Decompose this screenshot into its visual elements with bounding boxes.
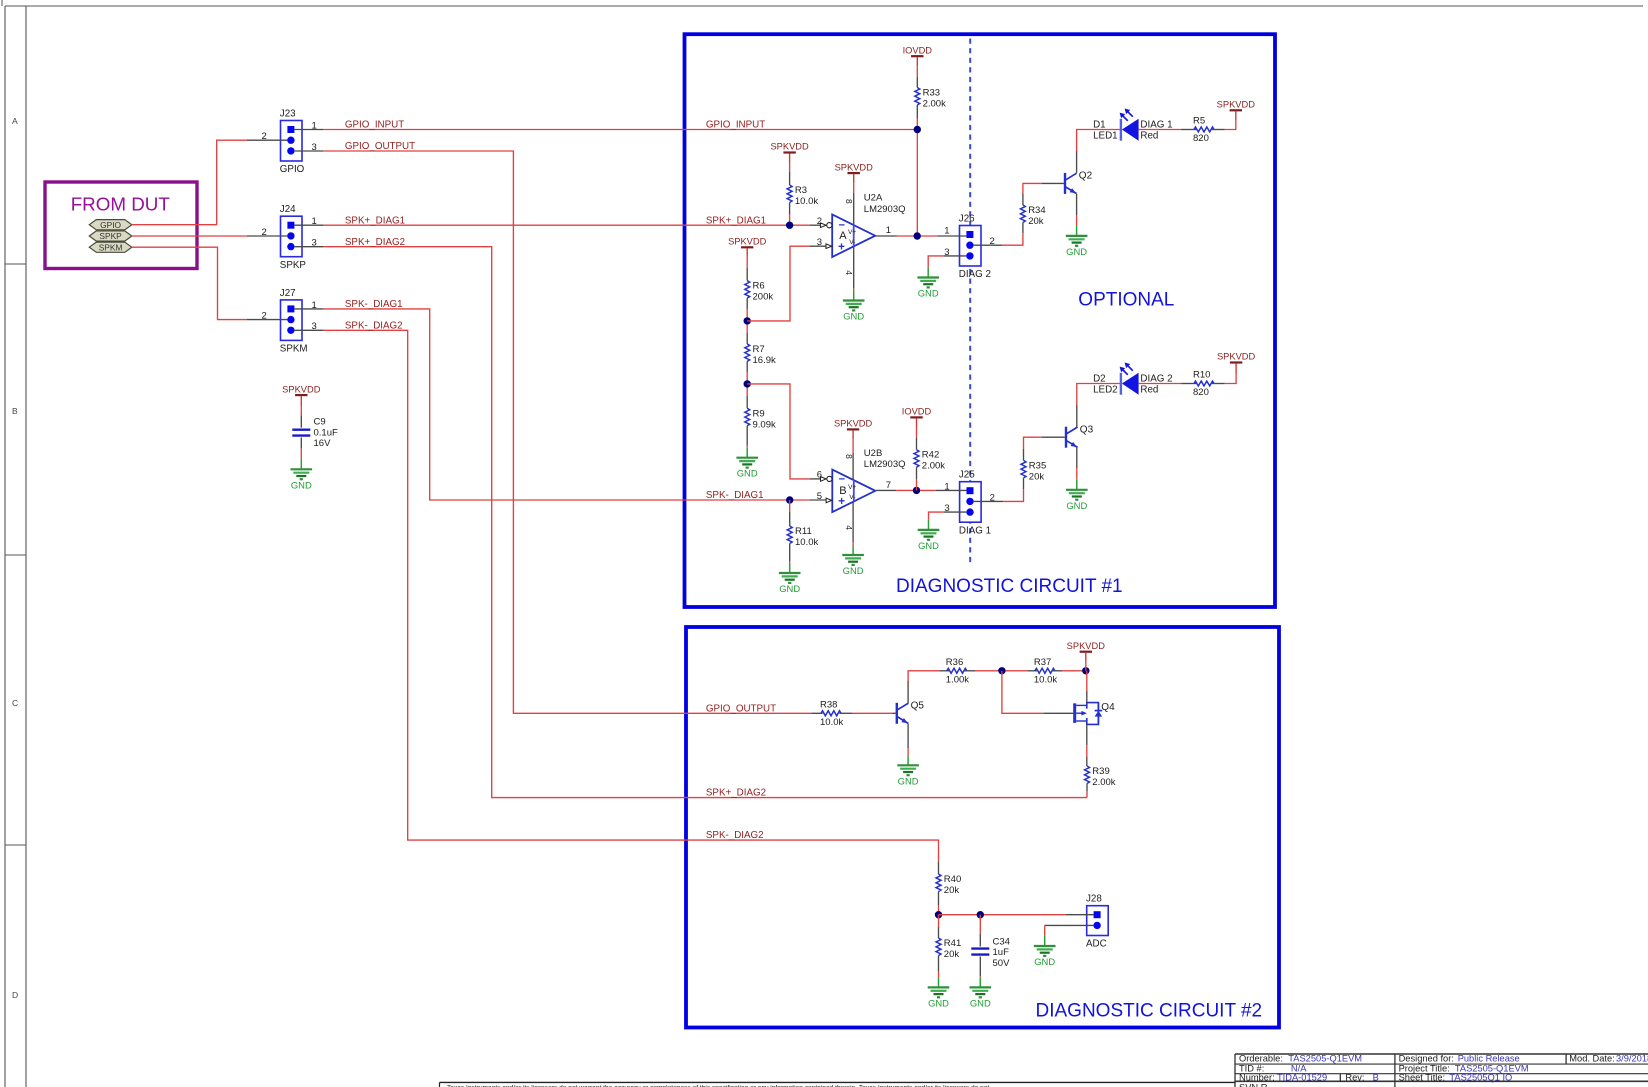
wire J26.1 lead [937,235,966,237]
svg-text:GND: GND [737,468,758,479]
svg-text:IOVDD: IOVDD [903,45,933,55]
svg-text:8: 8 [844,454,854,459]
svg-text:+: + [838,496,845,508]
transistor Q3 [1065,424,1094,447]
svg-text:R37: R37 [1034,657,1051,668]
wire J24.3 lead [295,246,323,248]
svg-text:Number:: Number: [1239,1072,1275,1082]
svg-text:GND: GND [1066,246,1087,257]
svg-text:6: 6 [817,470,822,481]
wire U2A out lead [875,235,897,237]
svg-text:D: D [12,990,18,1000]
svg-text:V+: V+ [848,229,856,236]
resistor R37 [1034,657,1057,686]
svg-text:GPIO: GPIO [100,220,121,230]
svg-text:V+: V+ [848,484,856,491]
svg-text:50V: 50V [993,958,1011,969]
svg-text:J28: J28 [1086,894,1102,905]
resistor R5 [1193,116,1214,145]
svg-text:SPKP: SPKP [99,231,122,241]
svg-text:TAS2505-Q1EVM: TAS2505-Q1EVM [1288,1054,1362,1064]
resistor R10 [1193,370,1214,399]
wire R11 top [789,500,791,526]
wire U2A pin8 [853,183,855,225]
net label SPK+_DIAG1 @U2A [706,215,766,226]
svg-text:IOVDD: IOVDD [902,407,932,417]
wire R5 left lead [1182,129,1197,131]
wire SPKM tag to J27.2 [132,247,247,319]
svg-text:R6: R6 [753,281,765,292]
svg-text:A: A [839,230,847,242]
svg-text:1: 1 [944,225,949,236]
box DIAGNOSTIC CIRCUIT #2 [686,627,1279,1028]
power flag SPKVDD @R5 [1217,100,1256,121]
svg-text:SPKVDD: SPKVDD [728,237,767,247]
svg-text:SPK+_DIAG2: SPK+_DIAG2 [345,237,405,248]
svg-text:GND: GND [918,288,939,299]
svg-text:DIAG 1: DIAG 1 [959,525,991,536]
junction SPK+_DIAG1/R3 [786,222,793,229]
ground GND @Q3 [1066,480,1088,511]
wire R34 top to Q2 [1023,183,1042,194]
svg-text:SPK-_DIAG2: SPK-_DIAG2 [345,320,403,331]
label DIAGNOSTIC CIRCUIT #2 [1036,1001,1263,1022]
ground GND @R41 [928,977,950,1008]
wire Q4 gate lead [1044,712,1073,714]
svg-text:2: 2 [817,216,822,227]
resistor R38 [820,699,843,728]
svg-text:SPK+_DIAG1: SPK+_DIAG1 [345,215,405,226]
net label SPK+_DIAG2 @R39 [706,788,766,799]
wire J27.1 lead [295,308,324,310]
wire U2B pin4 [852,501,854,545]
svg-text:LED2: LED2 [1093,384,1118,395]
wire IOVDD-R33 [916,66,918,87]
ground GND @R9 [736,448,758,479]
svg-text:9.09k: 9.09k [753,419,776,430]
svg-text:−: − [839,473,845,485]
svg-text:DIAGNOSTIC CIRCUIT #1: DIAGNOSTIC CIRCUIT #1 [896,576,1123,597]
svg-text:R33: R33 [923,88,940,99]
resistor R34 [1020,205,1045,227]
net label SPK+_DIAG1 @J24 [345,215,405,226]
resistor R35 [1021,460,1046,482]
net label GPIO_OUTPUT @Q5 [706,703,776,714]
wire U2B pin6 lead [810,478,825,480]
wire R6/R7 tap to U2A+ [747,246,810,321]
op-amp U2A LM2903Q [817,199,891,275]
svg-text:GPIO_INPUT: GPIO_INPUT [345,120,404,131]
wire U2B out net [896,489,935,491]
wire Q4 drain [1086,671,1088,703]
pin numbers J23 [262,120,317,152]
svg-text:8: 8 [844,199,854,204]
wire J23.2 lead [247,139,287,141]
junction GPIO_INPUT/R33 [914,126,921,133]
power flag IOVDD @R33 [903,45,933,66]
wire U2A pin4 [853,246,855,291]
label OPTIONAL [1078,290,1174,311]
port tag SPKP [89,231,132,241]
transistor Q2 [1064,171,1093,194]
svg-text:16V: 16V [314,438,332,449]
wire Q5 collector [907,681,909,703]
wire J24.2 lead [247,235,287,237]
ground GND @Q2 [1066,226,1088,257]
wire R37 right lead [1053,670,1062,672]
svg-text:R9: R9 [753,408,765,419]
svg-text:R38: R38 [820,699,837,710]
net label GPIO_OUTPUT @J23 [345,141,415,152]
svg-text:SVN R: SVN R [1239,1083,1268,1087]
net label SPK-_DIAG2 @R40 [706,830,764,841]
svg-text:C: C [12,698,18,708]
junction R6/R7 [744,317,751,324]
wire J27.2 lead [247,319,287,321]
svg-text:C34: C34 [993,937,1010,948]
wire Q2 collector to D1 [1077,130,1120,152]
junction SPK-_DIAG1/R11 [786,496,793,503]
wire C9-GND [300,438,302,460]
svg-text:V-: V- [849,494,855,501]
svg-text:200k: 200k [753,292,774,303]
resistor R41 [936,938,961,960]
ground GND @C9 [291,459,313,490]
wire R34 bottom lead [1022,223,1024,234]
svg-text:SPKVDD: SPKVDD [834,419,873,429]
wire R42-out [916,467,918,490]
disclaimer strip [440,1082,1236,1087]
svg-text:10.0k: 10.0k [1034,674,1057,685]
svg-text:LED1: LED1 [1093,130,1118,141]
svg-text:5: 5 [817,491,822,502]
svg-text:SPKM: SPKM [99,242,123,252]
svg-text:R41: R41 [944,938,961,949]
svg-text:J27: J27 [280,288,296,299]
wire R34-Q2 base [1022,194,1024,205]
FROM DUT box [45,182,197,269]
svg-text:SPKP: SPKP [280,260,307,271]
svg-text:SPK-_DIAG1: SPK-_DIAG1 [706,490,764,501]
LED D2 [1093,363,1172,396]
resistor R33 [915,88,946,110]
junction R40/R41 [935,911,942,918]
wire GPIO_INPUT [323,129,917,131]
wire R41 top [938,915,940,938]
svg-text:R5: R5 [1193,116,1205,127]
dashed divider [969,39,971,564]
connector J28 [1086,894,1108,950]
port tag SPKM [89,242,132,252]
resistor R40 [936,874,961,896]
svg-text:SPKM: SPKM [280,344,308,355]
pin numbers J27 [262,300,317,332]
svg-text:Red: Red [1140,384,1158,395]
svg-text:SPK-_DIAG1: SPK-_DIAG1 [345,299,403,310]
svg-text:R40: R40 [944,874,961,885]
wire J23.1 lead [295,129,324,131]
wire C34 top [979,915,981,947]
wire Q3 emitter [1076,447,1078,480]
wire GPIO tag to J23.2 [132,140,247,225]
svg-text:TIDA-01529: TIDA-01529 [1277,1072,1327,1082]
ground GND @C34 [970,977,992,1008]
svg-text:DIAG 2: DIAG 2 [959,269,991,280]
pin numbers J24 [262,216,317,249]
wire R37 left lead [1028,670,1037,672]
power flag SPKVDD @R10 [1217,352,1256,373]
power flag SPKVDD @R6 [728,237,767,258]
junction U2B out [913,487,920,494]
connector J26 [959,214,991,281]
svg-text:GND: GND [843,565,864,576]
wire gate net [1002,671,1044,714]
svg-text:GPIO: GPIO [280,164,305,175]
svg-text:20k: 20k [1029,471,1045,482]
svg-text:OPTIONAL: OPTIONAL [1078,290,1174,311]
svg-text:J26: J26 [959,214,975,225]
svg-text:Q3: Q3 [1080,424,1094,435]
wire Q5 coll to R36 [908,671,939,681]
connector J23 [280,109,305,176]
svg-text:820: 820 [1193,133,1209,144]
net label GPIO_INPUT @U2A [706,120,765,131]
svg-text:B: B [1373,1072,1379,1082]
svg-text:2.00k: 2.00k [923,99,946,110]
svg-text:3: 3 [817,237,822,248]
wire Q2 emitter [1076,194,1078,226]
svg-text:R11: R11 [795,526,812,537]
wire U2B out lead [876,489,896,491]
svg-text:2: 2 [262,227,267,238]
ground GND @R11 [779,563,801,594]
svg-text:SPK+_DIAG2: SPK+_DIAG2 [706,788,766,799]
svg-text:Orderable:: Orderable: [1239,1054,1283,1064]
title block [1235,1054,1648,1087]
svg-text:4: 4 [844,525,854,530]
connector J25 [959,470,991,537]
junction R36/R37 [998,667,1005,674]
net label SPK-_DIAG1 @J27 [345,299,403,310]
svg-text:U2A: U2A [864,193,883,204]
LED D1 [1093,109,1172,142]
wire R37-SPKVDD net [1062,670,1086,672]
resistor R11 [787,526,818,548]
svg-text:SPKVDD: SPKVDD [1067,641,1106,651]
wire SPKVDD-R3 [789,163,791,186]
wire SPK+_DIAG2 [323,247,1087,798]
wire R7-R9 [746,361,748,408]
wire J25.2 to R35 [1003,489,1023,501]
svg-text:20k: 20k [1028,216,1044,227]
wire R5 to SPKVDD [1225,120,1236,129]
svg-text:16.9k: 16.9k [753,355,776,366]
label U2A [864,193,906,215]
wire SPKVDD-C9 [300,405,302,428]
svg-text:Q4: Q4 [1101,702,1115,713]
wire J23.3 lead [295,150,323,152]
svg-text:DIAGNOSTIC CIRCUIT #2: DIAGNOSTIC CIRCUIT #2 [1036,1001,1263,1022]
ground GND @J25.3 [918,520,940,551]
svg-text:20k: 20k [944,885,960,896]
wire R10 left lead [1182,383,1197,385]
resistor R6 [745,281,774,303]
svg-text:SPK-_DIAG2: SPK-_DIAG2 [706,830,764,841]
wire J25.3 to GND [929,512,945,520]
svg-text:GPIO_OUTPUT: GPIO_OUTPUT [706,703,776,714]
svg-text:GND: GND [843,311,864,322]
power flag SPKVDD @R3 [770,142,809,163]
wire J25.3 lead [944,511,966,513]
wire J24.1 lead [295,224,324,226]
wire J28.2 to GND [1044,925,1046,936]
wire SPK+_DIAG1 [323,224,810,226]
svg-text:J25: J25 [959,470,975,481]
wire Q3 collector to D2 [1077,384,1120,406]
power flag SPKVDD @U2B.8 [834,419,873,440]
svg-text:20k: 20k [944,949,960,960]
wire R36-R37 net [975,670,1028,672]
wire R36 right lead [964,670,975,672]
wire R38 left lead [811,712,822,714]
svg-text:820: 820 [1193,387,1209,398]
ground GND @U2A.4 [843,291,865,322]
svg-text:Public Release: Public Release [1458,1054,1520,1064]
svg-text:3/9/2018: 3/9/2018 [1616,1054,1648,1064]
wire D2 to R10 [1139,383,1182,385]
wire J26.2 lead [974,244,1002,246]
wire Q3 base lead [1042,436,1065,438]
svg-text:+: + [838,242,845,254]
wire U2A pin3 lead [810,245,830,247]
svg-text:GPIO_OUTPUT: GPIO_OUTPUT [345,141,415,152]
wire Q2 base lead [1042,182,1064,184]
svg-text:R35: R35 [1029,460,1046,471]
wire U2A pin2 lead [810,224,825,226]
svg-text:GND: GND [970,997,991,1008]
junction C34 tap [977,911,984,918]
wire J26.2 to R34 [1002,233,1023,245]
svg-text:J24: J24 [280,204,296,215]
svg-text:4: 4 [844,270,854,275]
svg-text:Red: Red [1140,130,1158,141]
wire R11-GND [789,544,791,564]
svg-text:Mod. Date:: Mod. Date: [1569,1054,1614,1064]
junction R7/R9 [744,380,751,387]
wire Q2 collector [1076,151,1078,173]
wire U2B pin8 [852,439,854,480]
net label SPK-_DIAG2 @J27 [345,320,403,331]
wire R40 top lead [938,861,940,874]
wire J28.1 lead [1066,914,1094,916]
wire SPKVDD stub [1085,662,1087,671]
svg-text:GND: GND [1034,956,1055,967]
wire J25.2 lead [974,500,1004,502]
ground GND @J28.2 [1034,936,1056,967]
svg-text:GND: GND [1066,500,1087,511]
wire U2A out net [897,235,938,237]
ground GND @J26.3 [917,268,939,299]
wire R35-Q3 base [1023,449,1025,460]
svg-text:GND: GND [898,775,919,786]
wire GPIO_OUTPUT [323,151,811,713]
svg-text:J23: J23 [280,109,296,120]
svg-text:V-: V- [849,239,855,246]
power flag SPKVDD @C9 [282,384,321,405]
net label SPK-_DIAG1 @U2B [706,490,764,501]
ground GND @U2B.4 [842,545,864,576]
svg-text:2: 2 [262,131,267,142]
resistor R42 [914,450,945,472]
power flag IOVDD @R42 [902,407,932,428]
wire Q4 source [1086,725,1088,767]
wire R3-net [789,203,791,226]
svg-text:GND: GND [291,479,312,490]
wire Q5 emitter [907,724,909,755]
svg-text:10.0k: 10.0k [795,537,818,548]
wire R7/R9 tap to U2B- [747,384,810,479]
svg-text:SPKVDD: SPKVDD [1217,352,1256,362]
net label SPK+_DIAG2 @J24 [345,237,405,248]
svg-text:SPKVDD: SPKVDD [282,384,321,394]
svg-text:SPKVDD: SPKVDD [770,142,809,152]
box DIAGNOSTIC CIRCUIT #1 [685,34,1276,607]
capacitor C9 [292,416,338,449]
connector J24 [280,204,307,271]
junction R37/Q4 [1082,667,1089,674]
svg-text:Q2: Q2 [1079,171,1093,182]
svg-text:LM2903Q: LM2903Q [864,459,906,470]
wire U2B pin5 lead [810,499,830,501]
svg-text:Sheet Title:: Sheet Title: [1399,1072,1446,1082]
wire IOVDD-R42 [916,427,918,449]
wire SPK-_DIAG2 [323,330,939,861]
svg-text:B: B [12,406,18,416]
resistor R9 [745,408,776,430]
svg-text:A: A [12,116,18,126]
svg-text:TAS2505Q1 IO: TAS2505Q1 IO [1449,1072,1512,1082]
svg-text:SPKVDD: SPKVDD [835,162,874,172]
net label GPIO_INPUT @J23 [345,120,404,131]
wire Q3 collector [1076,405,1078,427]
svg-text:R7: R7 [753,344,765,355]
wire SPKP tag to J24.2 [132,235,247,237]
svg-text:2.00k: 2.00k [1092,777,1115,788]
resistor R39 [1085,766,1116,788]
transistor Q5 [896,701,925,724]
label U2B [864,448,906,470]
svg-text:R36: R36 [946,657,963,668]
wire R5 right lead [1212,129,1225,131]
svg-text:FROM DUT: FROM DUT [71,194,171,215]
svg-text:GND: GND [918,540,939,551]
svg-text:2.00k: 2.00k [922,461,945,472]
wire J27.3 lead [295,329,323,331]
svg-text:SPK+_DIAG1: SPK+_DIAG1 [706,215,766,226]
svg-text:R39: R39 [1092,766,1109,777]
svg-text:Designed for:: Designed for: [1399,1054,1454,1064]
svg-text:U2B: U2B [864,448,882,459]
svg-text:GND: GND [928,997,949,1008]
label DIAGNOSTIC CIRCUIT #1 [896,576,1123,597]
wire R39 bottom [1086,784,1088,798]
svg-text:GPIO_INPUT: GPIO_INPUT [706,120,765,131]
ground GND @Q5 [897,755,919,786]
power flag SPKVDD @R37 [1067,641,1106,662]
wire J26.3 lead [944,255,966,257]
wire R38-Q5 [839,712,895,714]
svg-text:0.1uF: 0.1uF [314,427,338,438]
